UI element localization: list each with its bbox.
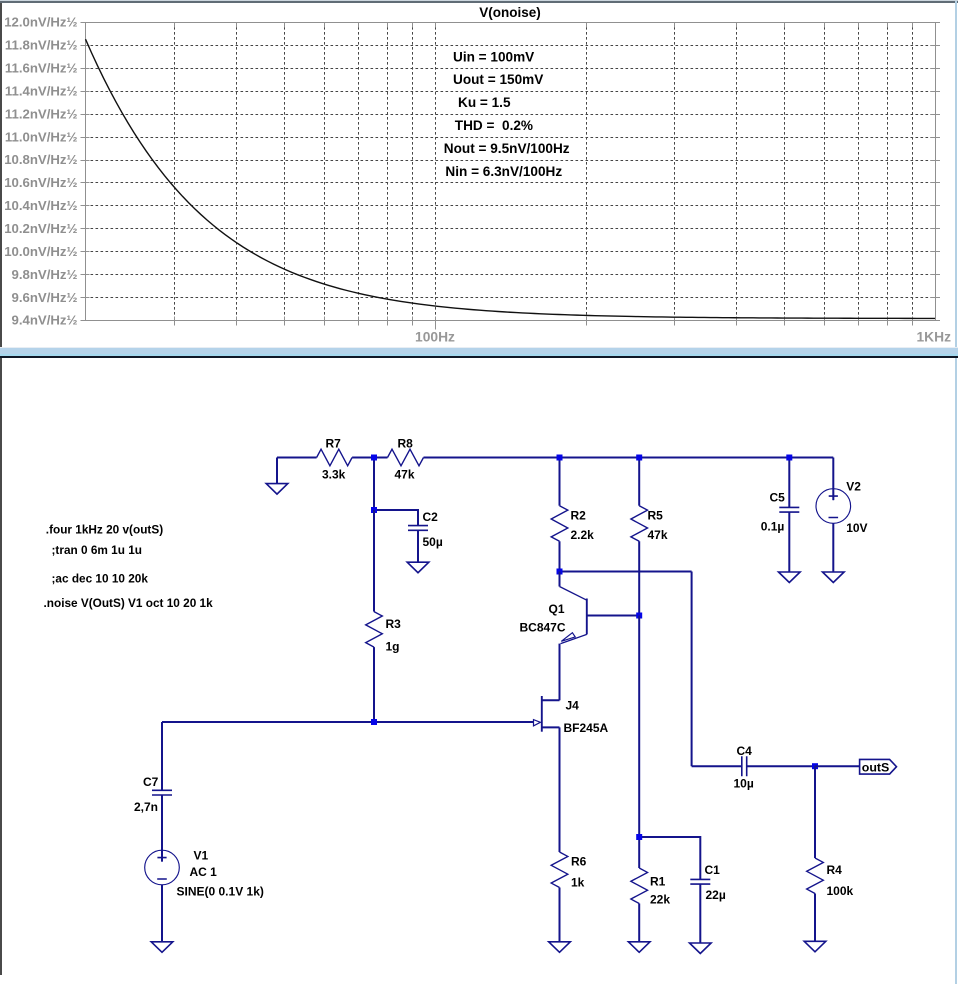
wire C1 to ground xyxy=(699,884,701,943)
capacitor C7 xyxy=(152,790,172,795)
node collector junction + wire to C4 drop xyxy=(560,571,692,573)
svg-text:50µ: 50µ xyxy=(423,535,443,549)
node junction R2/Q1-collector xyxy=(557,569,563,575)
svg-text:10V: 10V xyxy=(846,521,867,535)
svg-text:11.2nV/Hz½: 11.2nV/Hz½ xyxy=(5,106,78,121)
svg-text:0.1µ: 0.1µ xyxy=(761,520,785,534)
svg-text:11.6nV/Hz½: 11.6nV/Hz½ xyxy=(5,61,78,76)
svg-text:22µ: 22µ xyxy=(706,888,726,902)
ground under R4 xyxy=(804,941,826,952)
wire V1 to ground xyxy=(161,885,163,942)
transistor Q1 BC847C xyxy=(559,572,561,587)
resistor R5 xyxy=(638,458,640,506)
svg-text:BC847C: BC847C xyxy=(520,621,566,635)
svg-text:C5: C5 xyxy=(770,491,786,505)
voltage source V2 xyxy=(832,458,834,501)
wire Q1 emitter to J4 drain xyxy=(559,644,561,701)
svg-text:R1: R1 xyxy=(650,875,666,889)
capacitor C2 xyxy=(408,526,428,531)
JFET J4 BF245A xyxy=(541,696,543,732)
ground under C2 xyxy=(407,562,429,573)
svg-text:Uin = 100mV: Uin = 100mV xyxy=(453,49,534,64)
capacitor C4 xyxy=(692,765,742,767)
wire base net down to R1 xyxy=(638,616,640,869)
svg-text:Nout = 9.5nV/100Hz: Nout = 9.5nV/100Hz xyxy=(444,141,570,156)
svg-text:100k: 100k xyxy=(827,884,854,898)
plot axis ticks xyxy=(81,23,941,330)
svg-text:1KHz: 1KHz xyxy=(917,330,952,345)
svg-text:R7: R7 xyxy=(326,437,342,451)
separator bar between plot and schematic xyxy=(0,347,958,348)
wire R7 ground drop xyxy=(276,458,278,484)
wire C7 to V1 xyxy=(161,795,163,861)
svg-text:10µ: 10µ xyxy=(734,777,754,791)
wire C2 to ground xyxy=(417,530,419,562)
svg-text:J4: J4 xyxy=(566,699,580,713)
svg-text:THD = 0.2%: THD = 0.2% xyxy=(455,118,533,133)
svg-text:Ku = 1.5: Ku = 1.5 xyxy=(458,95,511,110)
node junction Q1-base/R5 xyxy=(636,613,642,619)
node outS junction xyxy=(812,763,818,769)
svg-text:12.0nV/Hz½: 12.0nV/Hz½ xyxy=(4,15,77,30)
resistor R2 xyxy=(559,458,561,506)
capacitor C5 xyxy=(788,458,790,508)
ground under V2 xyxy=(823,572,845,583)
plot horizontal grid lines xyxy=(86,46,936,298)
resistor R8 xyxy=(388,449,424,466)
resistor R7 xyxy=(317,449,353,466)
capacitor C1 xyxy=(690,879,710,884)
ground under C1 xyxy=(690,943,712,954)
svg-text:1k: 1k xyxy=(571,876,585,890)
svg-text:22k: 22k xyxy=(650,893,670,907)
svg-text:10.0nV/Hz½: 10.0nV/Hz½ xyxy=(4,244,77,259)
svg-text:100Hz: 100Hz xyxy=(415,330,455,345)
resistor R6 xyxy=(551,852,568,888)
svg-text:Q1: Q1 xyxy=(549,602,565,616)
wire C7 drop xyxy=(161,722,163,790)
node junction C2/R3 xyxy=(371,507,377,513)
svg-text:9.6nV/Hz½: 9.6nV/Hz½ xyxy=(12,290,78,305)
wire C2 branch xyxy=(374,510,418,526)
window chrome left border xyxy=(0,3,2,975)
resistor R1 xyxy=(631,868,648,904)
svg-text:C4: C4 xyxy=(737,744,753,758)
noise curve trace xyxy=(86,39,936,318)
svg-text:SINE(0 0.1V 1k): SINE(0 0.1V 1k) xyxy=(177,885,264,899)
svg-text:11.8nV/Hz½: 11.8nV/Hz½ xyxy=(5,38,78,53)
svg-text:47k: 47k xyxy=(648,528,668,542)
ground under R7 xyxy=(266,484,288,495)
svg-text:2,7n: 2,7n xyxy=(134,800,158,814)
svg-text:47k: 47k xyxy=(395,468,415,482)
svg-text:3.3k: 3.3k xyxy=(322,468,346,482)
resistor R4 xyxy=(814,766,816,858)
node junction rail/R2 xyxy=(557,455,563,461)
plot border xyxy=(86,23,936,321)
svg-text:11.0nV/Hz½: 11.0nV/Hz½ xyxy=(5,129,78,144)
svg-text:1g: 1g xyxy=(386,640,400,654)
svg-text:9.8nV/Hz½: 9.8nV/Hz½ xyxy=(12,267,78,282)
node junction input/gate/R3 xyxy=(371,719,377,725)
svg-text:10.2nV/Hz½: 10.2nV/Hz½ xyxy=(4,221,77,236)
svg-text:;tran 0 6m 1u 1u: ;tran 0 6m 1u 1u xyxy=(52,543,142,557)
wire top supply rail xyxy=(277,457,317,459)
node junction rail/R5 xyxy=(636,455,642,461)
ground under R1 xyxy=(628,942,650,953)
node junction R1/C1 xyxy=(636,834,642,840)
svg-text:R8: R8 xyxy=(398,437,414,451)
resistor R3 xyxy=(373,510,375,612)
svg-text:R6: R6 xyxy=(571,855,587,869)
ground under C5 xyxy=(779,572,801,583)
svg-text:11.4nV/Hz½: 11.4nV/Hz½ xyxy=(5,83,78,98)
ground under R6 xyxy=(549,942,571,953)
window chrome right border xyxy=(955,1,957,984)
wire input net (gate rail) xyxy=(162,721,534,723)
svg-text:;ac dec 10 10 20k: ;ac dec 10 10 20k xyxy=(52,572,149,586)
svg-text:R4: R4 xyxy=(827,863,843,877)
svg-text:C1: C1 xyxy=(705,863,721,877)
svg-text:R2: R2 xyxy=(571,509,587,523)
node R1/C1 junction xyxy=(639,837,700,879)
svg-text:.noise V(OutS) V1 oct 10 20 1k: .noise V(OutS) V1 oct 10 20 1k xyxy=(44,596,214,610)
svg-text:Uout = 150mV: Uout = 150mV xyxy=(453,72,543,87)
voltage source V1 xyxy=(145,850,180,885)
svg-text:outS: outS xyxy=(862,760,890,774)
window chrome top edge xyxy=(0,0,958,1)
ground under V1 xyxy=(151,942,173,953)
svg-text:BF245A: BF245A xyxy=(564,721,609,735)
wire J4 source to R6 xyxy=(559,727,561,852)
svg-text:V1: V1 xyxy=(194,849,209,863)
svg-text:R3: R3 xyxy=(386,617,402,631)
svg-text:V(onoise): V(onoise) xyxy=(479,5,541,20)
svg-text:2.2k: 2.2k xyxy=(571,528,595,542)
svg-text:10.8nV/Hz½: 10.8nV/Hz½ xyxy=(4,152,77,167)
svg-text:10.6nV/Hz½: 10.6nV/Hz½ xyxy=(4,175,77,190)
svg-text:AC 1: AC 1 xyxy=(190,865,218,879)
node junction rail/R7/R8 drop xyxy=(373,458,375,511)
svg-text:9.4nV/Hz½: 9.4nV/Hz½ xyxy=(12,313,78,328)
node junction R7/R8/C2-branch xyxy=(371,455,377,461)
node junction rail/C5 xyxy=(786,455,792,461)
svg-text:Nin = 6.3nV/100Hz: Nin = 6.3nV/100Hz xyxy=(445,164,562,179)
net flag outS xyxy=(860,759,897,774)
svg-text:10.4nV/Hz½: 10.4nV/Hz½ xyxy=(4,198,77,213)
svg-text:R5: R5 xyxy=(648,509,664,523)
plot vertical grid lines xyxy=(175,22,913,320)
svg-text:C2: C2 xyxy=(423,510,439,524)
svg-text:.four 1kHz 20 v(outS): .four 1kHz 20 v(outS) xyxy=(46,523,163,537)
svg-text:V2: V2 xyxy=(846,480,861,494)
svg-text:C7: C7 xyxy=(143,775,159,789)
